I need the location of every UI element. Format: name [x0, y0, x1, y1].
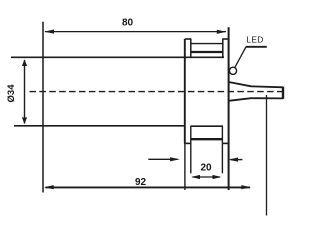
svg-text:20: 20 [200, 162, 212, 173]
svg-text:92: 92 [135, 177, 147, 188]
svg-text:LED: LED [246, 35, 263, 45]
svg-text:80: 80 [122, 17, 134, 28]
svg-text:Ø34: Ø34 [6, 84, 17, 103]
